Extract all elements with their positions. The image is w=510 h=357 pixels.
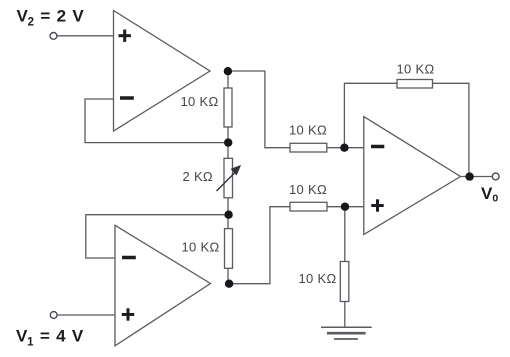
- plus sign U1: [119, 30, 131, 42]
- junction node U1 output: [224, 67, 232, 75]
- resistor R2 2K body (variable): [224, 158, 233, 198]
- junction node U2 output: [225, 280, 233, 288]
- terminal V2: [50, 33, 57, 40]
- wire U1 inverting feedback: [85, 99, 228, 143]
- plus sign U3: [371, 199, 383, 211]
- wire ground branch: [344, 207, 346, 328]
- op-amp U2 (bottom): [115, 225, 211, 345]
- svg-text:10 KΩ: 10 KΩ: [397, 62, 435, 77]
- junction node U3 non-inverting input: [341, 203, 349, 211]
- terminal V1: [50, 312, 57, 319]
- resistor R1 10K body (top vertical): [224, 88, 232, 127]
- minus sign U1: [120, 96, 134, 100]
- svg-text:10 KΩ: 10 KΩ: [181, 94, 219, 109]
- wire resistor-chain vertical node: [227, 71, 229, 284]
- svg-text:10 KΩ: 10 KΩ: [182, 240, 220, 255]
- wire V1 input: [58, 314, 116, 316]
- op-amp U3 (right): [364, 117, 461, 235]
- resistor R6 10K body (to non-inverting input): [290, 202, 327, 211]
- resistor R7 10K body (to ground): [340, 262, 349, 302]
- terminal V0: [492, 173, 499, 180]
- svg-text:10 KΩ: 10 KΩ: [299, 271, 337, 286]
- junction node R1-R2: [224, 138, 232, 146]
- op-amp U1 (top): [114, 11, 211, 132]
- wire U3 output: [461, 176, 493, 178]
- minus sign U2: [122, 256, 136, 260]
- svg-text:2 KΩ: 2 KΩ: [183, 169, 213, 184]
- wire U1 output to inverting input of U3: [228, 71, 364, 148]
- wire V2 input: [57, 35, 114, 37]
- svg-text:V0: V0: [481, 184, 499, 205]
- svg-text:V1 = 4 V: V1 = 4 V: [16, 327, 84, 349]
- ground: [321, 327, 372, 339]
- wire U3 feedback loop: [344, 83, 469, 176]
- resistor R5 10K body (feedback): [397, 80, 433, 89]
- minus sign U3: [371, 145, 384, 149]
- junction node U3 inverting input: [340, 144, 348, 152]
- arrow of variable resistor R2: [217, 166, 240, 191]
- junction node U3 output: [465, 172, 473, 180]
- plus sign U2: [122, 308, 134, 320]
- svg-text:10 KΩ: 10 KΩ: [289, 182, 327, 197]
- wire U2 inverting feedback: [86, 215, 228, 258]
- svg-text:V2 = 2 V: V2 = 2 V: [17, 7, 85, 29]
- wire U2 output to non-inverting input of U3: [229, 207, 364, 284]
- junction node R2-R3: [224, 211, 232, 219]
- resistor R4 10K body (to inverting input): [290, 143, 327, 152]
- resistor R3 10K body (bottom vertical): [225, 229, 233, 269]
- svg-text:10 KΩ: 10 KΩ: [289, 123, 327, 138]
